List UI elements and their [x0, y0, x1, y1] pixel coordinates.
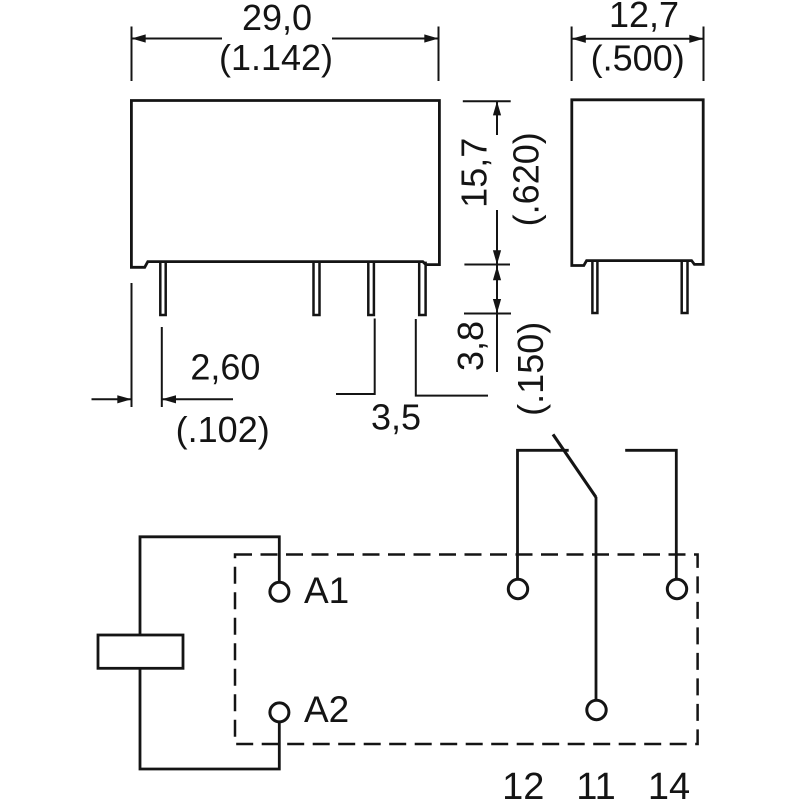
- contact wire 12: [518, 450, 569, 578]
- dimension 15,7 arrow up: [493, 101, 501, 115]
- dimension 15,7 arrow down: [493, 250, 501, 264]
- dimension 12,7 arrow left: [572, 35, 586, 43]
- svg-text:15,7: 15,7: [454, 138, 495, 208]
- dimension 29,0 extension line right: [438, 27, 440, 82]
- svg-text:2,60: 2,60: [190, 347, 260, 388]
- side pin left: [592, 261, 597, 313]
- svg-text:(1.142): (1.142): [219, 37, 333, 78]
- contact blade: [553, 434, 596, 497]
- dimension 29,0 extension line left: [131, 27, 133, 82]
- dimension 15,7 line upper: [496, 101, 498, 135]
- svg-text:(.102): (.102): [176, 409, 270, 450]
- dimension 2,60 arrow: [117, 395, 131, 403]
- pin 3 front: [368, 262, 374, 315]
- terminal 11: [587, 700, 606, 719]
- dimension 29,0 arrow right: [424, 34, 438, 42]
- schematic dashed enclosure: [235, 555, 698, 745]
- svg-text:A1: A1: [304, 570, 349, 611]
- coil wire bottom: [140, 668, 279, 769]
- terminal A1: [270, 582, 289, 601]
- dimension 3,8 leader line: [496, 266, 498, 373]
- dimension 29,0 line left: [132, 38, 223, 40]
- coil element: [98, 635, 183, 668]
- svg-text:12,7: 12,7: [609, 0, 679, 35]
- contact wire 11: [595, 497, 598, 700]
- dimension 2,60 line left: [92, 398, 132, 400]
- dimension 15,7 top extension: [463, 100, 511, 102]
- svg-text:(.620): (.620): [506, 132, 547, 226]
- pin 4 front: [419, 262, 425, 315]
- dimension 3,5 right bracket: [416, 319, 488, 396]
- svg-text:12: 12: [502, 766, 544, 800]
- side pin right: [682, 261, 688, 313]
- svg-text:11: 11: [576, 766, 615, 800]
- dimension 12,7 arrow right: [689, 35, 703, 43]
- dimension 2,60 arrow left-pointing: [162, 395, 176, 403]
- svg-text:(.500): (.500): [591, 38, 685, 79]
- pin 1 front: [160, 262, 165, 315]
- svg-text:3,8: 3,8: [450, 321, 491, 371]
- dimension 29,0 line right: [332, 38, 439, 40]
- dimension 3,8 bottom extension: [464, 313, 511, 315]
- dimension 12,7 extension right: [703, 27, 705, 82]
- terminal 12: [508, 579, 527, 598]
- terminal 14: [667, 579, 686, 598]
- dimension 2,60 extension left: [131, 283, 133, 407]
- dimension 12,7 extension left: [571, 27, 573, 82]
- svg-text:A2: A2: [304, 689, 349, 730]
- dimension 15,7 mid extension: [464, 264, 510, 266]
- svg-text:(.150): (.150): [510, 322, 551, 416]
- relay body side view: [572, 100, 703, 266]
- relay body front view: [131, 101, 439, 268]
- svg-text:14: 14: [648, 766, 690, 800]
- dimension 12,7 line: [572, 38, 704, 40]
- dimension 3,5 left bracket: [336, 319, 375, 395]
- dimension 2,60 line right: [162, 398, 233, 400]
- dimension 2,60 extension right: [161, 327, 163, 407]
- terminal A2: [270, 703, 289, 722]
- contact wire 14: [625, 450, 676, 578]
- svg-text:3,5: 3,5: [371, 397, 421, 438]
- dimension 3,8 arrow down: [493, 299, 501, 313]
- pin 2 front: [314, 262, 320, 315]
- svg-text:29,0: 29,0: [242, 0, 312, 38]
- dimension 15,7 line lower: [496, 210, 498, 265]
- dimension 29,0 arrow left: [132, 34, 146, 42]
- dimension 3,8 arrow up: [493, 266, 501, 280]
- coil wire top: [140, 537, 279, 635]
